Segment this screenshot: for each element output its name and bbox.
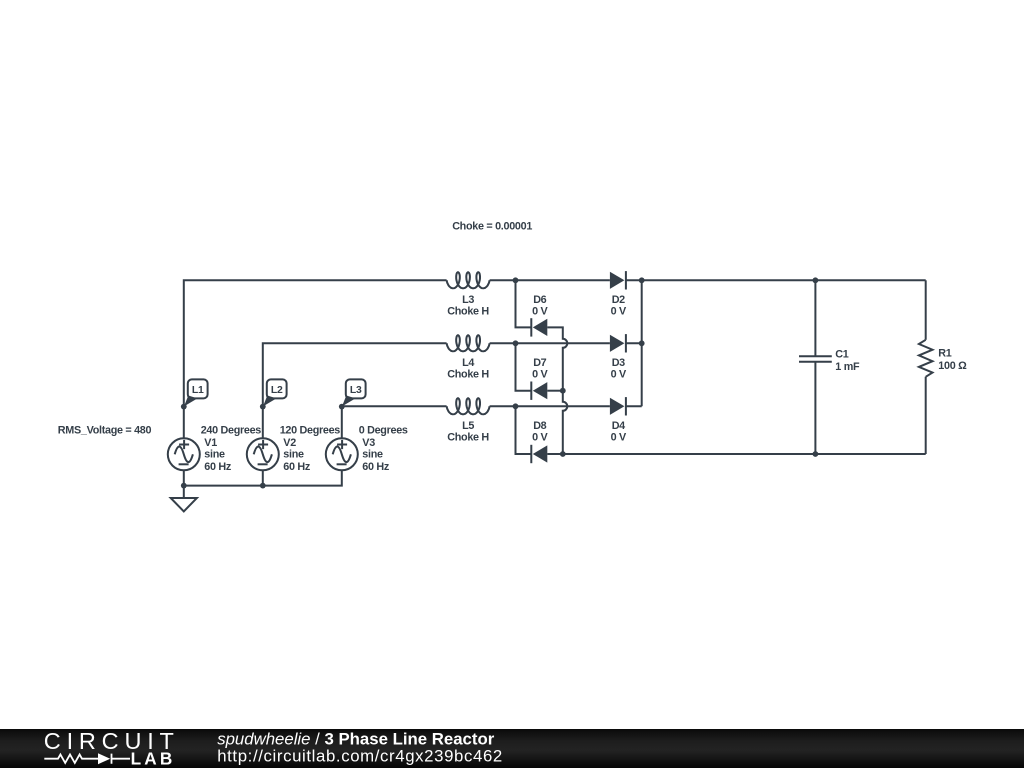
wire: phase A tap down to D6 cathode: [516, 280, 532, 327]
svg-text:60 Hz: 60 Hz: [204, 461, 232, 473]
junction dot: [639, 277, 645, 283]
CircuitLab logo: [44, 728, 180, 768]
wire: V3 up to phase C row and right to L5: [342, 406, 447, 438]
svg-text:100 Ω: 100 Ω: [938, 360, 967, 372]
junction dot: [813, 451, 819, 457]
diode D2 (0 V): [610, 271, 627, 318]
svg-text:L3: L3: [350, 385, 362, 396]
svg-text:V2: V2: [283, 437, 296, 449]
inductor L5 (Choke H): [447, 398, 490, 443]
junction dot: [560, 388, 566, 394]
svg-text:0 V: 0 V: [611, 432, 627, 444]
svg-text:60 Hz: 60 Hz: [283, 461, 311, 473]
svg-text:L4: L4: [462, 357, 474, 369]
junction dot: [560, 451, 566, 457]
wire: D8 anode and bottom negative rail to R1: [547, 453, 925, 455]
diode D8 (0 V): [531, 420, 548, 463]
junction dot: [513, 403, 519, 409]
junction dot: [513, 340, 519, 346]
resistor R1 (100 &#937;): [919, 340, 967, 377]
svg-text:L3: L3: [462, 294, 474, 306]
wire: V2 bottom lead: [262, 470, 264, 485]
svg-text:D3: D3: [612, 357, 625, 369]
wire: D3 cathode to positive bus: [626, 342, 642, 344]
svg-text:R1: R1: [938, 348, 951, 360]
junction dot: [181, 483, 187, 489]
net flag L3: [339, 379, 366, 409]
wire: R1 bottom lead: [925, 377, 927, 454]
wire: D7 anode to negative bus: [547, 390, 563, 392]
junction dot: [813, 277, 819, 283]
inductor L3 (Choke H): [447, 272, 490, 317]
svg-text:Choke H: Choke H: [447, 369, 489, 381]
svg-text:120 Degrees: 120 Degrees: [280, 425, 341, 437]
svg-text:L1: L1: [192, 385, 204, 396]
wire: L3 to D2: [490, 279, 610, 281]
svg-text:60 Hz: 60 Hz: [362, 461, 390, 473]
svg-text:D2: D2: [612, 294, 625, 306]
voltage source V3 (sine 60 Hz): [326, 425, 408, 473]
svg-text:0 Degrees: 0 Degrees: [359, 425, 408, 437]
svg-text:LAB: LAB: [131, 749, 176, 768]
svg-text:sine: sine: [362, 449, 383, 461]
svg-text:0 V: 0 V: [532, 432, 548, 444]
wire: source bottom rail V1 to V3: [184, 470, 342, 485]
ground symbol: [171, 498, 197, 511]
wire: C1 bottom lead to negative rail: [814, 362, 816, 454]
voltage source V1 (sine 60 Hz): [168, 425, 262, 473]
wire: stub to ground: [183, 486, 185, 498]
wire: phase B tap down to D7 cathode: [516, 343, 532, 390]
voltage source V2 (sine 60 Hz): [247, 425, 341, 473]
svg-text:sine: sine: [283, 449, 304, 461]
diode D6 (0 V): [531, 294, 548, 337]
svg-text:Choke H: Choke H: [447, 306, 489, 318]
footer bar: [0, 729, 1024, 768]
diode D7 (0 V): [531, 357, 548, 400]
svg-text:L5: L5: [462, 420, 474, 432]
wire: L4 to D3: [490, 342, 610, 344]
wire: V1 up to phase A row and right to L3: [184, 280, 447, 438]
svg-text:0 V: 0 V: [532, 369, 548, 381]
wire: L5 to D4: [490, 405, 610, 407]
wire: V2 up to phase B row and right to L4: [263, 343, 447, 438]
junction dot: [513, 277, 519, 283]
svg-text:http://circuitlab.com/cr4gx239: http://circuitlab.com/cr4gx239bc462: [217, 746, 503, 765]
wire: R1 top lead: [925, 280, 927, 340]
inductor L4 (Choke H): [447, 335, 490, 380]
wire: D4 cathode to positive bus: [626, 405, 642, 407]
svg-text:sine: sine: [204, 449, 225, 461]
wire: phase C tap down to D8 cathode: [516, 406, 532, 454]
svg-text:0 V: 0 V: [611, 369, 627, 381]
svg-text:D7: D7: [533, 357, 546, 369]
svg-text:RMS_Voltage = 480: RMS_Voltage = 480: [58, 424, 152, 436]
svg-text:L2: L2: [271, 385, 283, 396]
svg-text:D8: D8: [533, 420, 546, 432]
wire: C1 top lead from output rail: [814, 280, 816, 356]
svg-text:C1: C1: [835, 349, 848, 361]
svg-text:D4: D4: [612, 420, 625, 432]
svg-text:D6: D6: [533, 294, 546, 306]
svg-text:V3: V3: [362, 437, 375, 449]
junction dot: [260, 483, 266, 489]
diode D4 (0 V): [610, 397, 627, 444]
wire: positive vertical bus joining D2 D3 D4: [641, 280, 643, 406]
wire: D2 cathode along output top rail to R1: [626, 279, 926, 281]
svg-text:V1: V1: [204, 437, 217, 449]
capacitor C1 (1 mF): [799, 349, 860, 373]
svg-text:0 V: 0 V: [532, 306, 548, 318]
svg-text:1 mF: 1 mF: [835, 361, 860, 373]
net flag L2: [260, 379, 287, 409]
junction dot: [639, 340, 645, 346]
svg-text:Choke = 0.00001: Choke = 0.00001: [452, 221, 532, 233]
svg-text:240 Degrees: 240 Degrees: [201, 425, 262, 437]
net flag L1: [181, 379, 208, 409]
svg-text:0 V: 0 V: [611, 306, 627, 318]
wire: D6 anode to negative bus with hops over phase B and C: [547, 327, 567, 454]
svg-text:Choke H: Choke H: [447, 432, 489, 444]
diode D3 (0 V): [610, 334, 627, 381]
